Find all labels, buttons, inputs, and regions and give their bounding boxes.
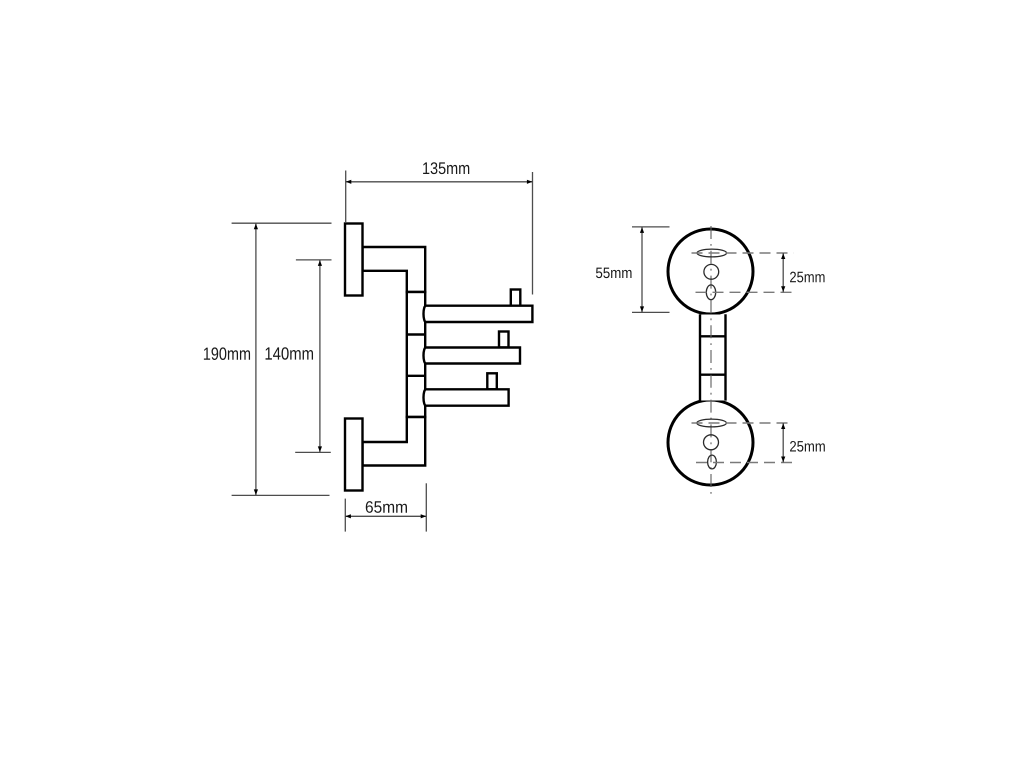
65mm dimension line [345,515,426,517]
190mm bottom arrowhead [254,489,258,495]
top mounting bracket L-arm [363,247,426,292]
135mm left arrowhead [346,180,352,184]
140mm top arrowhead [318,260,322,266]
connecting bar body [700,315,726,401]
dashed reference line top slot [692,252,794,254]
hook peg of arm 2 [499,332,509,348]
vertical centerline (dash-dot) [710,226,712,497]
135mm right extension line [532,172,534,295]
135mm right arrowhead [527,180,533,184]
55mm dimension line [641,227,643,313]
190mm top arrowhead [254,224,258,230]
135mm dimension label [423,162,469,174]
post joint line 1 [407,333,425,335]
post joint line 2 [407,375,425,377]
hook peg of arm 1 [511,290,521,306]
135mm left extension line [345,171,347,223]
top rosette lower slot (vertical oval) [706,285,715,300]
65mm dimension label [366,501,407,513]
55mm top tick line [632,226,670,228]
bar joint line upper [700,335,726,337]
25mm bottom lower arrowhead [781,457,785,463]
140mm bottom tick line [295,451,331,453]
190mm top tick line [232,222,332,224]
hook arm 3 (bottom, shortest) [423,389,508,405]
190mm bottom tick line [232,494,330,496]
bar joint line lower [700,374,726,376]
65mm right extension line [425,483,427,531]
25mm top lower arrowhead [781,286,785,292]
bottom rosette slot (horizontal oval) [697,419,727,427]
top mounting rosette circle [668,229,753,314]
135mm dimension line [346,181,533,183]
hook arm 1 (top, longest) [424,306,533,322]
hook peg of arm 3 [487,373,497,389]
140mm bottom arrowhead [318,446,322,452]
swivel post [407,292,425,417]
bottom mounting rosette circle [668,400,753,485]
dashed reference line bottom slot [692,422,793,424]
connecting bar left edge [699,314,701,400]
190mm dimension line [255,223,257,495]
25mm top dimension line [782,253,784,292]
65mm right arrowhead [421,514,427,518]
140mm top tick line [296,259,332,261]
55mm bottom arrowhead [640,306,644,312]
connecting bar right edge [724,314,726,400]
55mm dimension label [596,268,632,279]
25mm bottom upper arrowhead [781,423,785,429]
top rosette screw hole (circle) [704,264,719,279]
140mm dimension line [319,260,321,453]
25mm top upper arrowhead [781,253,785,259]
55mm bottom tick line [632,311,670,313]
190mm dimension label [204,347,250,360]
25mm top dimension label [790,272,825,283]
65mm left extension line [344,499,346,532]
hook arm 2 (middle) [424,348,521,364]
bottom wall plate [345,419,363,491]
bottom rosette lower slot (vertical oval) [708,455,717,469]
dashed reference line top lower slot [696,291,794,293]
top wall plate [345,224,363,296]
25mm bottom dimension line [782,423,784,463]
140mm dimension label [266,347,313,360]
bottom rosette screw hole (circle) [704,435,719,450]
25mm bottom dimension label [790,441,825,452]
55mm top arrowhead [640,227,644,233]
dashed reference line bottom lower slot [696,462,793,464]
bottom mounting bracket L-arm [363,417,426,466]
65mm left arrowhead [345,514,351,518]
top rosette slot (horizontal oval) [697,249,727,257]
